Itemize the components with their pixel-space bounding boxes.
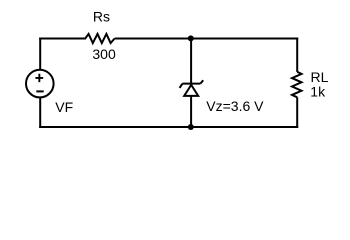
voltage source VF — [26, 70, 54, 98]
wire bottom horizontal (node B to bottom-left corner) — [39, 126, 190, 128]
node A junction dot (top) — [188, 35, 194, 41]
zener diode anode wire (triangle to node B) — [190, 96, 192, 127]
zener diode — [180, 80, 204, 96]
zener diode cathode wire (node A to bar) — [190, 39, 192, 84]
wire right vertical (corner to RL) — [296, 38, 298, 72]
resistor RL — [292, 72, 302, 98]
label VF — [55, 99, 73, 115]
wire top horizontal (node A to top-right corner) — [190, 38, 298, 40]
resistor Rs — [85, 34, 114, 43]
svg-text:Vz=3.6 V: Vz=3.6 V — [206, 98, 264, 114]
label RL — [311, 69, 329, 85]
wire right vertical (RL to bottom-right corner) — [296, 97, 298, 128]
wire left vertical (bottom corner to source) — [39, 98, 41, 128]
svg-text:1k: 1k — [310, 84, 326, 100]
wire bottom horizontal (bottom-right corner to node B) — [190, 126, 298, 128]
value 300 — [92, 46, 116, 62]
node B junction dot (bottom) — [188, 124, 194, 130]
wire top horizontal (Rs to node A) — [115, 38, 190, 40]
value Vz=3.6 V — [206, 98, 264, 114]
wire left vertical (source to top-left corner) — [39, 38, 41, 71]
svg-text:Rs: Rs — [93, 9, 110, 25]
svg-text:VF: VF — [55, 99, 73, 115]
svg-text:300: 300 — [92, 46, 116, 62]
label Rs — [93, 9, 110, 25]
wire top-left horizontal (source branch to Rs) — [39, 38, 86, 40]
value 1k — [310, 84, 326, 100]
